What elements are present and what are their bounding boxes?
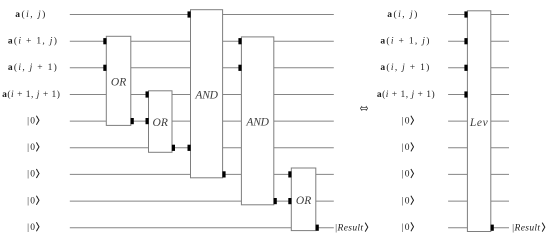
svg-text:|0: |0	[402, 223, 411, 233]
svg-text:AND: AND	[245, 117, 269, 129]
svg-text:|0: |0	[27, 116, 36, 126]
wire q9 output stub (right circuit)	[491, 227, 509, 229]
wire q6 input stub (right circuit)	[448, 147, 467, 149]
wire q2 (left circuit)	[70, 40, 334, 42]
wire q5 output stub (right circuit)	[491, 120, 509, 122]
wire q1 input stub (right circuit)	[448, 14, 467, 16]
svg-text:|Result: |Result	[335, 223, 364, 233]
U5 control q7	[288, 171, 291, 177]
wire q1 (left circuit)	[70, 14, 334, 16]
U4 target q8	[274, 198, 277, 204]
wire q1 output stub (right circuit)	[491, 14, 509, 16]
Lev gate U6	[467, 11, 490, 232]
wire q4 (left circuit)	[70, 94, 334, 96]
svg-text:a(i + 1, j + 1): a(i + 1, j + 1)	[2, 89, 60, 100]
svg-text:a(i + 1, j + 1): a(i + 1, j + 1)	[377, 89, 435, 100]
svg-text:|0: |0	[27, 170, 36, 180]
svg-text:|0: |0	[27, 223, 36, 233]
wire q6 output stub (right circuit)	[491, 147, 509, 149]
wire q5 input stub (right circuit)	[448, 120, 467, 122]
svg-text:|0: |0	[27, 196, 36, 206]
U2 control q5	[146, 118, 149, 124]
svg-text:|0: |0	[402, 116, 411, 126]
U6 control q1	[464, 11, 467, 17]
wire q4 input stub (right circuit)	[448, 94, 467, 96]
U3 control q6	[188, 145, 191, 151]
wire q8 (left circuit)	[70, 200, 334, 202]
svg-text:OR: OR	[111, 77, 126, 89]
wire q7 (left circuit)	[70, 173, 334, 175]
OR gate U1	[106, 36, 131, 125]
U2 control q4	[146, 91, 149, 97]
wire q3 input stub (right circuit)	[448, 67, 467, 69]
svg-text:AND: AND	[194, 89, 218, 101]
svg-text:a(i, j): a(i, j)	[387, 9, 419, 20]
U5 control q8	[288, 198, 291, 204]
U2 target q6	[172, 145, 175, 151]
wire q2 output stub (right circuit)	[491, 40, 509, 42]
svg-text:|0: |0	[402, 143, 411, 153]
U6 control q3	[464, 65, 467, 71]
U1 target q5	[131, 118, 134, 124]
wire q7 input stub (right circuit)	[448, 173, 467, 175]
equivalence symbol <=>	[360, 106, 367, 111]
wire q2 input stub (right circuit)	[448, 40, 467, 42]
wire q7 output stub (right circuit)	[491, 173, 509, 175]
U6 control q2	[464, 38, 467, 44]
wire q9 (left circuit)	[70, 227, 334, 229]
U4 control q2	[238, 38, 241, 44]
U3 target q7	[222, 171, 225, 177]
AND gate U3	[191, 10, 223, 178]
wire q3 (left circuit)	[70, 67, 334, 69]
U5 target q9	[316, 225, 319, 231]
svg-text:Lev: Lev	[469, 117, 489, 129]
OR gate U5	[291, 168, 316, 231]
svg-text:|0: |0	[402, 170, 411, 180]
svg-text:OR: OR	[296, 195, 311, 207]
U6 control q4	[464, 91, 467, 97]
svg-text:a(i, j): a(i, j)	[15, 9, 47, 20]
AND gate U4	[241, 37, 273, 205]
U3 control q1	[188, 11, 191, 17]
svg-text:a(i, j + 1): a(i, j + 1)	[8, 62, 58, 73]
svg-text:|Result: |Result	[512, 223, 541, 233]
U1 control q2	[103, 38, 106, 44]
U4 control q3	[238, 65, 241, 71]
wire q8 input stub (right circuit)	[448, 200, 467, 202]
svg-text:a(i, j + 1): a(i, j + 1)	[380, 62, 430, 73]
svg-text:OR: OR	[153, 117, 168, 129]
U1 control q3	[103, 65, 106, 71]
wire q3 output stub (right circuit)	[491, 67, 509, 69]
wire q6 (left circuit)	[70, 147, 334, 149]
wire q5 (left circuit)	[70, 120, 334, 122]
OR gate U2	[149, 91, 173, 153]
svg-text:|0: |0	[27, 143, 36, 153]
svg-text:|0: |0	[402, 196, 411, 206]
wire q9 input stub (right circuit)	[448, 227, 467, 229]
wire q8 output stub (right circuit)	[491, 200, 509, 202]
U6 target q9	[491, 225, 494, 231]
svg-text:a(i + 1, j): a(i + 1, j)	[380, 36, 430, 47]
svg-text:a(i + 1, j): a(i + 1, j)	[8, 36, 58, 47]
wire q4 output stub (right circuit)	[491, 94, 509, 96]
